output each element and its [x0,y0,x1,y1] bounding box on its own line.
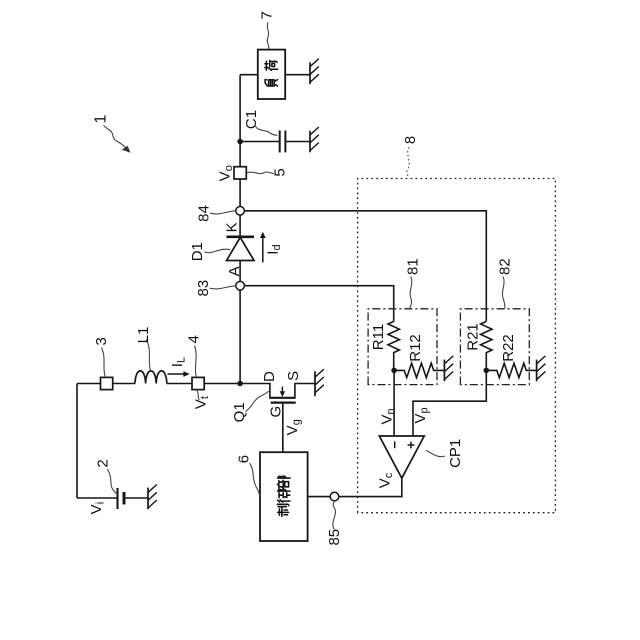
svg-text:81: 81 [405,258,422,275]
svg-text:83: 83 [195,280,212,297]
leader 2 [108,469,118,493]
control box [260,452,308,541]
svg-text:84: 84 [195,205,212,222]
svg-text:8: 8 [402,136,419,144]
leader D1 [205,249,231,253]
resistor R21 [481,321,492,370]
wire L1 to terminal 4 [167,383,192,385]
leader 3 [102,348,106,377]
svg-text:2: 2 [94,459,111,467]
svg-text:3: 3 [93,337,110,345]
leader 84 [210,211,235,214]
wire node 83 branch [240,286,394,322]
diode D1 triangle [227,237,255,260]
diode D1 cathode bar [227,235,255,238]
dashed block 8 [358,179,556,513]
wire C1 to ground [285,141,310,143]
wire Vp input [413,370,486,436]
arrow IL current [168,371,190,377]
leader 8 [407,147,409,178]
wire C1 branch [240,141,280,143]
svg-text:6: 6 [236,455,253,463]
leader 82 [502,277,505,309]
ground at load [310,59,319,84]
leader 6 [250,463,260,496]
junction dot R11 R12 [391,368,397,374]
wire node 84 branch [240,211,486,322]
load box [258,50,285,99]
leader Q1 [246,391,269,411]
leader 5 [247,172,274,174]
svg-text:R21: R21 [465,323,482,351]
leader Vt [197,390,200,400]
terminal 4 [192,377,204,389]
svg-text:4: 4 [185,335,202,343]
wire gate Vg [282,403,284,453]
svg-text:CP1: CP1 [447,439,464,468]
capacitor C1 plates [279,131,281,153]
wire Vi drop to battery [77,497,118,499]
junction dot R21 R22 [484,368,490,374]
battery Vi plate short [123,492,126,504]
svg-text:K: K [224,222,241,232]
leader 85 [333,501,336,530]
svg-text:1: 1 [93,115,110,124]
transistor Q1 drain wire [240,384,270,398]
wire Vc control to comparator [308,478,402,496]
kanji load (fuka) in load box [265,60,278,86]
leader 83 [210,286,236,289]
dash-dot block 81 [368,309,437,385]
svg-text:R12: R12 [407,334,424,362]
wire battery to ground [124,497,148,499]
resistor R11 [388,321,399,370]
transistor Q1 source wire [295,384,315,398]
transistor Q1 gate bar [271,402,296,404]
leader L1 [146,340,151,372]
transistor Q1 channel bar [269,397,295,399]
leader 1 arrow [104,126,131,153]
dash-dot block 82 [460,309,529,385]
wire Vn input [393,370,395,436]
inductor L1 [135,371,167,384]
wire terminal 3 to L1 [113,383,135,385]
wire to terminal 3 [77,383,101,385]
leader CP1 [426,450,445,456]
leader C1 [256,127,278,136]
svg-text:D1: D1 [189,242,206,261]
battery Vi plate long [116,488,118,509]
terminal 5 Vo [234,167,246,179]
node 84 circle [236,206,245,215]
ground at R12 [444,356,453,381]
wire main rail right [239,75,241,237]
svg-text:82: 82 [496,258,513,275]
wire input top horizontal [76,384,78,499]
ground at Vi [148,485,157,510]
svg-text:A: A [226,266,243,276]
ground at R22 [537,356,546,381]
arrow Q1 body [280,387,285,397]
svg-text:L1: L1 [135,327,152,344]
ground at C1 [310,127,319,152]
svg-text:C1: C1 [243,110,260,129]
wire load to ground [285,74,310,76]
svg-text:5: 5 [272,168,289,176]
junction dot input node [237,381,243,387]
wire rail corner down to load [240,74,258,76]
wire terminal 4 to node [204,383,240,385]
resistor R22 [486,363,536,377]
svg-text:D: D [261,371,278,382]
node 83 circle [236,281,245,290]
op-amp CP1 [379,436,424,478]
plus sign CP1 [408,442,415,449]
terminal 3 [101,377,113,389]
junction dot C1 tap [237,139,243,145]
svg-text:85: 85 [326,529,343,546]
ground at Q1 source [315,369,324,396]
svg-text:Q1: Q1 [231,402,248,422]
svg-text:R22: R22 [500,334,517,362]
wire main rail left [239,261,241,384]
leader 4 [195,346,197,377]
leader 7 [267,23,269,50]
resistor R12 [394,363,444,377]
minus sign CP1 [394,441,396,448]
node 85 circle [330,492,339,501]
arrow Id current [260,232,266,263]
svg-text:R11: R11 [370,324,387,350]
svg-text:S: S [285,371,302,381]
leader 81 [410,277,412,310]
kanji control-unit (seigyobu) in control box [277,476,290,516]
svg-text:7: 7 [259,11,276,19]
svg-text:G: G [267,406,284,418]
